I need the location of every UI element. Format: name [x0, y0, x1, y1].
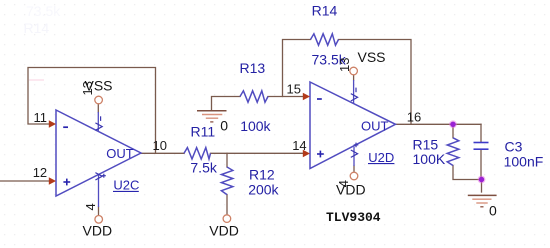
- pin circle U2C VSS: [95, 96, 103, 104]
- resistor R11: [184, 148, 211, 159]
- op-amp U2D plus input mark: [317, 151, 324, 158]
- svg-text:U2C: U2C: [113, 178, 139, 193]
- wire U2C VDD pin stub: [98, 207, 100, 215]
- op-amp U2D: [310, 82, 396, 169]
- pin circle U2D VDD: [350, 172, 358, 180]
- op-amp U2C pin lines: [97, 112, 99, 207]
- svg-text:7.5k: 7.5k: [190, 160, 217, 176]
- op-amp U2D V+ glyph: [351, 143, 359, 158]
- svg-text:R12: R12: [249, 166, 275, 182]
- wire R14 left leg: [283, 40, 311, 97]
- svg-text:0: 0: [220, 118, 228, 134]
- svg-text:10: 10: [153, 138, 167, 153]
- svg-text:VDD: VDD: [209, 222, 239, 238]
- svg-text:4: 4: [83, 203, 98, 210]
- op-amp U2C: [56, 110, 141, 196]
- wire R13 to U2D pin 15: [268, 96, 307, 98]
- svg-text:100k: 100k: [240, 118, 271, 134]
- svg-text:13: 13: [337, 58, 352, 72]
- svg-text:14: 14: [292, 138, 306, 153]
- svg-text:15: 15: [287, 82, 301, 97]
- input arrow pin 14: [303, 150, 310, 158]
- wire R11 to U2D pin 14: [211, 152, 307, 154]
- op-amp U2D pin lines: [353, 80, 355, 166]
- svg-text:VDD: VDD: [336, 182, 366, 198]
- op-amp U2C V- glyph: [95, 116, 102, 130]
- svg-text:R13: R13: [240, 60, 266, 76]
- wire U2D VDD pin stub: [353, 166, 355, 173]
- svg-text:TLV9304: TLV9304: [326, 210, 381, 225]
- op-amp U2D V- glyph: [351, 88, 358, 101]
- input arrow pin 15: [303, 93, 310, 101]
- artifact pink stub near box corner: [29, 79, 44, 81]
- capacitor C3: [474, 143, 489, 150]
- svg-text:16: 16: [407, 109, 421, 124]
- input arrow pin 11: [49, 120, 56, 128]
- op-amp U2C plus input mark: [63, 179, 70, 186]
- wire R15 top branch: [452, 124, 454, 138]
- svg-text:73.5k: 73.5k: [26, 3, 61, 19]
- svg-text:OUT: OUT: [361, 119, 389, 134]
- wire ground stem right: [481, 180, 483, 193]
- wire U2D VSS pin stub: [353, 74, 355, 80]
- op-amp U2C minus input mark: [63, 126, 68, 128]
- ground 0 (right, at C3): [468, 195, 497, 206]
- wire R15 bottom to junction: [453, 166, 481, 180]
- wire U2C VSS pin stub: [97, 103, 99, 112]
- op-amp U2C V+ glyph: [95, 173, 105, 180]
- resistor R12: [221, 167, 232, 195]
- pin circle U2D VSS: [350, 67, 358, 75]
- wire U2C feedback loop (pin10 to pin11): [28, 68, 156, 153]
- pin circle U2C VDD: [95, 216, 103, 224]
- pin circle R12 VDD: [223, 215, 231, 223]
- svg-text:R14: R14: [24, 20, 50, 36]
- svg-text:11: 11: [34, 110, 48, 125]
- svg-text:VDD: VDD: [83, 223, 113, 239]
- svg-text:C3: C3: [505, 138, 523, 154]
- wire ground to R13: [212, 97, 241, 111]
- svg-text:VSS: VSS: [85, 78, 113, 94]
- svg-text:100K: 100K: [413, 151, 446, 167]
- ground 0 (left, at R13): [197, 111, 227, 122]
- wire C3 top branch: [480, 124, 482, 142]
- resistor R13: [240, 91, 268, 102]
- wire input pin 12: [0, 180, 53, 182]
- svg-text:OUT: OUT: [106, 146, 134, 161]
- svg-text:12: 12: [33, 165, 47, 180]
- svg-text:R11: R11: [191, 124, 216, 140]
- resistor R14: [311, 34, 339, 45]
- svg-text:0: 0: [489, 203, 497, 219]
- wire U2D output pin 16: [396, 123, 482, 125]
- junction dot at R15 top: [449, 120, 457, 128]
- wire C3 bottom branch: [480, 150, 482, 180]
- wire R12 branch: [226, 153, 228, 167]
- svg-text:R14: R14: [312, 3, 338, 19]
- wire R12 to VDD pin circle: [226, 195, 228, 215]
- svg-text:VSS: VSS: [358, 49, 386, 65]
- svg-text:200k: 200k: [248, 182, 279, 198]
- input arrow pin 12: [49, 177, 56, 185]
- svg-text:U2D: U2D: [368, 150, 394, 165]
- wire U2C output to R11: [141, 152, 184, 154]
- wire R14 right leg to output: [339, 40, 412, 125]
- junction dot at ground bottom: [478, 176, 486, 184]
- resistor R15: [447, 138, 459, 166]
- svg-text:100nF: 100nF: [504, 154, 544, 170]
- op-amp U2D minus input mark: [317, 98, 322, 100]
